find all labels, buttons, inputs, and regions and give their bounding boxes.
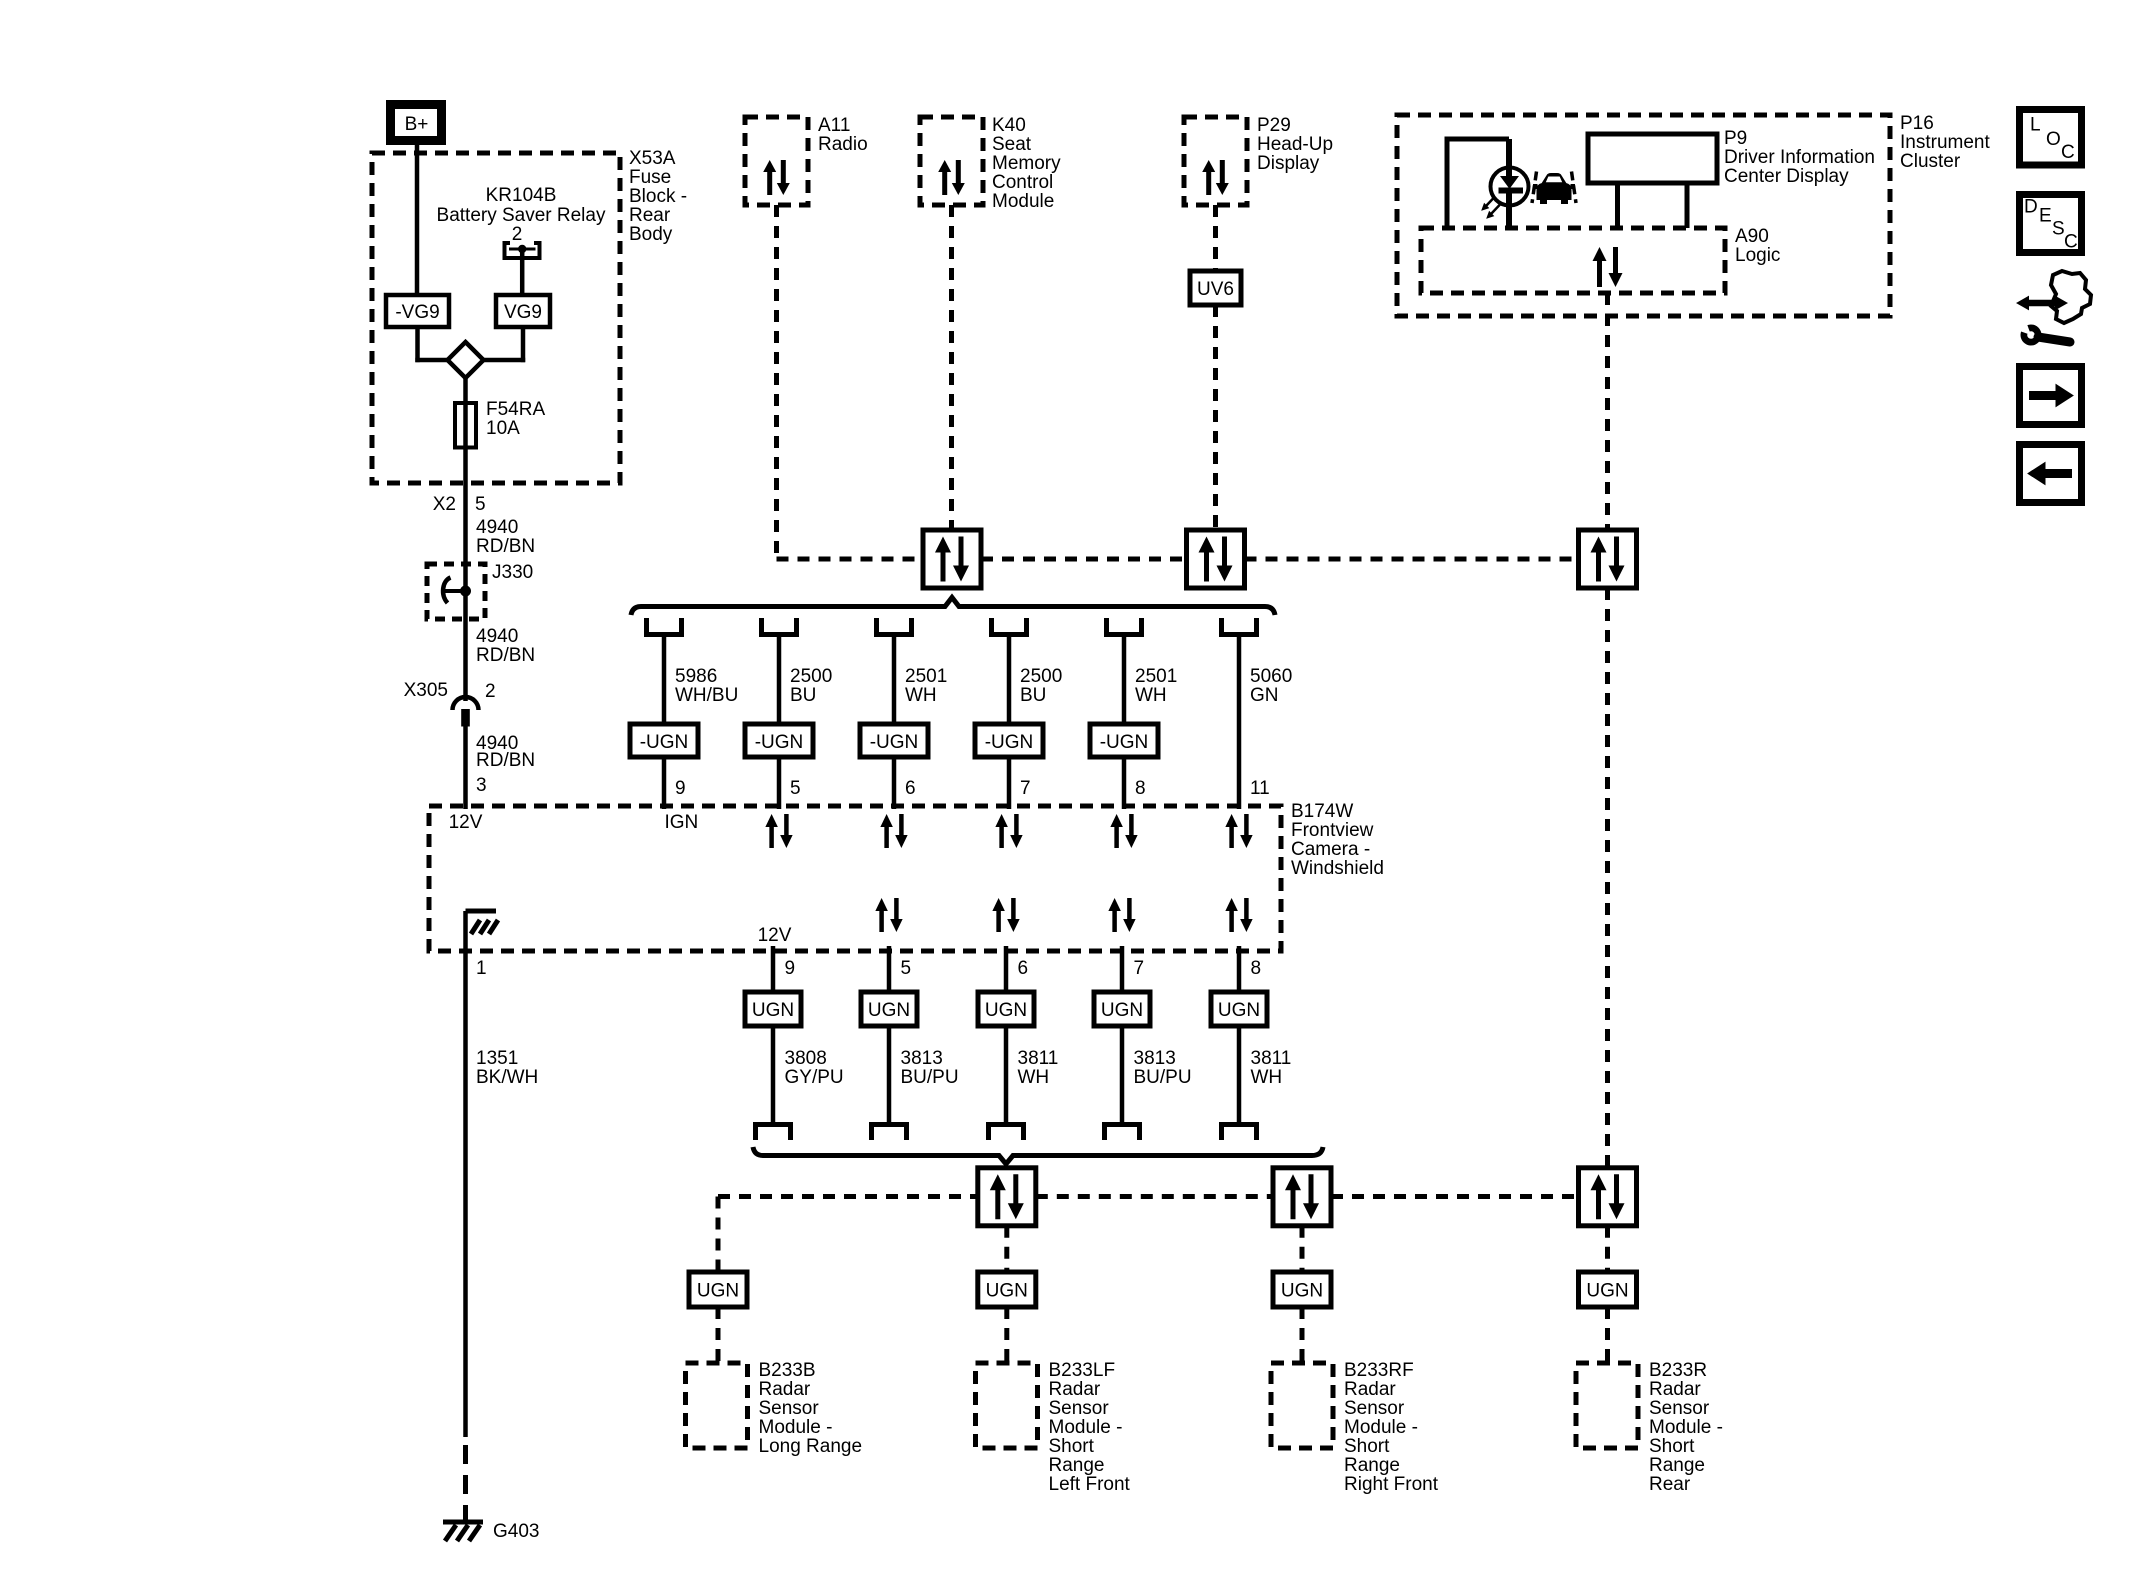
svg-text:12V: 12V: [449, 812, 483, 833]
svg-text:Sensor: Sensor: [759, 1398, 820, 1419]
svg-text:-VG9: -VG9: [395, 302, 439, 323]
svg-text:WH: WH: [1135, 685, 1167, 706]
svg-text:8: 8: [1251, 958, 1262, 979]
svg-text:3: 3: [476, 775, 487, 796]
svg-text:5: 5: [901, 958, 912, 979]
svg-text:KR104B: KR104B: [486, 185, 557, 206]
svg-text:Cluster: Cluster: [1900, 151, 1961, 172]
svg-text:9: 9: [785, 958, 796, 979]
svg-text:S: S: [2052, 219, 2065, 240]
svg-text:GY/PU: GY/PU: [785, 1067, 844, 1088]
svg-text:C: C: [2064, 232, 2078, 253]
svg-text:D: D: [2024, 197, 2038, 218]
svg-text:Module -: Module -: [1649, 1417, 1723, 1438]
svg-text:UV6: UV6: [1197, 279, 1234, 300]
svg-text:B233B: B233B: [759, 1360, 816, 1381]
svg-text:1: 1: [476, 958, 487, 979]
svg-text:2500: 2500: [1020, 666, 1062, 687]
svg-text:2: 2: [512, 224, 523, 245]
svg-text:X53A: X53A: [629, 148, 676, 169]
svg-text:B233RF: B233RF: [1344, 1360, 1414, 1381]
svg-text:Frontview: Frontview: [1291, 820, 1374, 841]
svg-text:C: C: [2061, 142, 2075, 163]
svg-text:-UGN: -UGN: [640, 732, 689, 753]
svg-text:UGN: UGN: [985, 1000, 1027, 1021]
svg-text:Camera -: Camera -: [1291, 839, 1370, 860]
svg-text:B174W: B174W: [1291, 801, 1353, 822]
svg-text:Block -: Block -: [629, 186, 687, 207]
svg-text:P16: P16: [1900, 113, 1934, 134]
svg-text:UGN: UGN: [1586, 1281, 1628, 1302]
svg-text:3811: 3811: [1251, 1048, 1292, 1069]
svg-text:BU: BU: [1020, 685, 1046, 706]
svg-text:BU/PU: BU/PU: [901, 1067, 959, 1088]
svg-text:5: 5: [790, 778, 801, 799]
svg-text:12V: 12V: [758, 925, 792, 946]
svg-text:Radar: Radar: [1344, 1379, 1396, 1400]
svg-text:Radar: Radar: [759, 1379, 811, 1400]
svg-text:BU/PU: BU/PU: [1134, 1067, 1192, 1088]
svg-text:X305: X305: [404, 680, 448, 701]
svg-text:6: 6: [1018, 958, 1029, 979]
svg-text:10A: 10A: [486, 418, 520, 439]
svg-text:Rear: Rear: [629, 205, 671, 226]
svg-text:K40: K40: [992, 115, 1026, 136]
svg-text:IGN: IGN: [665, 812, 699, 833]
svg-text:5060: 5060: [1250, 666, 1292, 687]
svg-text:-UGN: -UGN: [870, 732, 919, 753]
svg-text:-UGN: -UGN: [985, 732, 1034, 753]
svg-text:WH/BU: WH/BU: [675, 685, 738, 706]
svg-text:E: E: [2039, 206, 2052, 227]
svg-text:P9: P9: [1724, 128, 1747, 149]
svg-text:Radar: Radar: [1049, 1379, 1101, 1400]
svg-text:Head-Up: Head-Up: [1257, 134, 1333, 155]
svg-text:3813: 3813: [901, 1048, 943, 1069]
svg-text:G403: G403: [493, 1521, 539, 1542]
svg-text:Module -: Module -: [759, 1417, 833, 1438]
svg-text:WH: WH: [1018, 1067, 1050, 1088]
svg-text:5: 5: [475, 494, 486, 515]
svg-text:Driver Information: Driver Information: [1724, 147, 1875, 168]
svg-text:3808: 3808: [785, 1048, 827, 1069]
svg-text:Range: Range: [1049, 1455, 1105, 1476]
svg-text:Logic: Logic: [1735, 245, 1780, 266]
svg-text:4940: 4940: [476, 626, 518, 647]
svg-text:-UGN: -UGN: [1100, 732, 1149, 753]
svg-text:Memory: Memory: [992, 153, 1061, 174]
svg-text:GN: GN: [1250, 685, 1279, 706]
svg-text:Fuse: Fuse: [629, 167, 671, 188]
svg-text:7: 7: [1020, 778, 1031, 799]
svg-text:Range: Range: [1344, 1455, 1400, 1476]
svg-text:J330: J330: [492, 562, 533, 583]
svg-text:P29: P29: [1257, 115, 1291, 136]
svg-text:Range: Range: [1649, 1455, 1705, 1476]
svg-text:WH: WH: [905, 685, 937, 706]
svg-text:2501: 2501: [905, 666, 947, 687]
svg-text:2500: 2500: [790, 666, 832, 687]
svg-text:UGN: UGN: [1281, 1281, 1323, 1302]
svg-text:Seat: Seat: [992, 134, 1032, 155]
svg-text:8: 8: [1135, 778, 1146, 799]
svg-text:2: 2: [485, 681, 496, 702]
svg-text:Battery Saver Relay: Battery Saver Relay: [437, 205, 606, 226]
svg-text:Body: Body: [629, 224, 673, 245]
svg-text:Windshield: Windshield: [1291, 858, 1384, 879]
svg-text:F54RA: F54RA: [486, 399, 545, 420]
svg-text:O: O: [2046, 129, 2061, 150]
svg-text:-UGN: -UGN: [755, 732, 804, 753]
svg-text:6: 6: [905, 778, 916, 799]
svg-text:L: L: [2030, 115, 2041, 136]
svg-text:Instrument: Instrument: [1900, 132, 1990, 153]
svg-text:WH: WH: [1251, 1067, 1283, 1088]
svg-text:BU: BU: [790, 685, 816, 706]
svg-text:B233R: B233R: [1649, 1360, 1707, 1381]
svg-text:Sensor: Sensor: [1049, 1398, 1110, 1419]
svg-text:RD/BN: RD/BN: [476, 750, 535, 771]
svg-text:UGN: UGN: [1218, 1000, 1260, 1021]
svg-text:B+: B+: [405, 114, 429, 135]
svg-text:5986: 5986: [675, 666, 717, 687]
svg-text:3813: 3813: [1134, 1048, 1176, 1069]
svg-text:Short: Short: [1344, 1436, 1390, 1457]
svg-text:Right Front: Right Front: [1344, 1474, 1439, 1495]
svg-text:A11: A11: [818, 115, 850, 136]
svg-text:Module -: Module -: [1344, 1417, 1418, 1438]
svg-text:UGN: UGN: [1101, 1000, 1143, 1021]
svg-text:B233LF: B233LF: [1049, 1360, 1116, 1381]
svg-text:BK/WH: BK/WH: [476, 1067, 538, 1088]
svg-text:Left Front: Left Front: [1049, 1474, 1131, 1495]
svg-text:VG9: VG9: [504, 302, 542, 323]
svg-text:Short: Short: [1649, 1436, 1695, 1457]
svg-text:UGN: UGN: [868, 1000, 910, 1021]
svg-text:Radio: Radio: [818, 134, 868, 155]
svg-text:A90: A90: [1735, 226, 1769, 247]
svg-text:Module -: Module -: [1049, 1417, 1123, 1438]
svg-text:RD/BN: RD/BN: [476, 536, 535, 557]
svg-text:3811: 3811: [1018, 1048, 1059, 1069]
svg-text:UGN: UGN: [752, 1000, 794, 1021]
svg-text:Short: Short: [1049, 1436, 1095, 1457]
svg-text:4940: 4940: [476, 517, 518, 538]
svg-text:Control: Control: [992, 172, 1053, 193]
svg-text:Display: Display: [1257, 153, 1320, 174]
svg-text:1351: 1351: [476, 1048, 518, 1069]
svg-text:Center Display: Center Display: [1724, 166, 1849, 187]
svg-text:UGN: UGN: [697, 1281, 739, 1302]
svg-text:Sensor: Sensor: [1344, 1398, 1405, 1419]
svg-text:Rear: Rear: [1649, 1474, 1691, 1495]
svg-text:X2: X2: [433, 494, 456, 515]
svg-text:11: 11: [1250, 778, 1270, 799]
svg-text:Radar: Radar: [1649, 1379, 1701, 1400]
svg-text:UGN: UGN: [986, 1281, 1028, 1302]
svg-text:Long Range: Long Range: [759, 1436, 863, 1457]
svg-text:Module: Module: [992, 191, 1054, 212]
svg-text:RD/BN: RD/BN: [476, 645, 535, 666]
svg-text:2501: 2501: [1135, 666, 1177, 687]
svg-text:9: 9: [675, 778, 686, 799]
svg-text:7: 7: [1134, 958, 1145, 979]
svg-text:Sensor: Sensor: [1649, 1398, 1710, 1419]
